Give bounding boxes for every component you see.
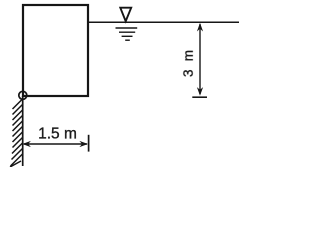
svg-text:1.5 m: 1.5 m <box>38 126 77 143</box>
svg-text:3 m: 3 m <box>181 50 196 77</box>
